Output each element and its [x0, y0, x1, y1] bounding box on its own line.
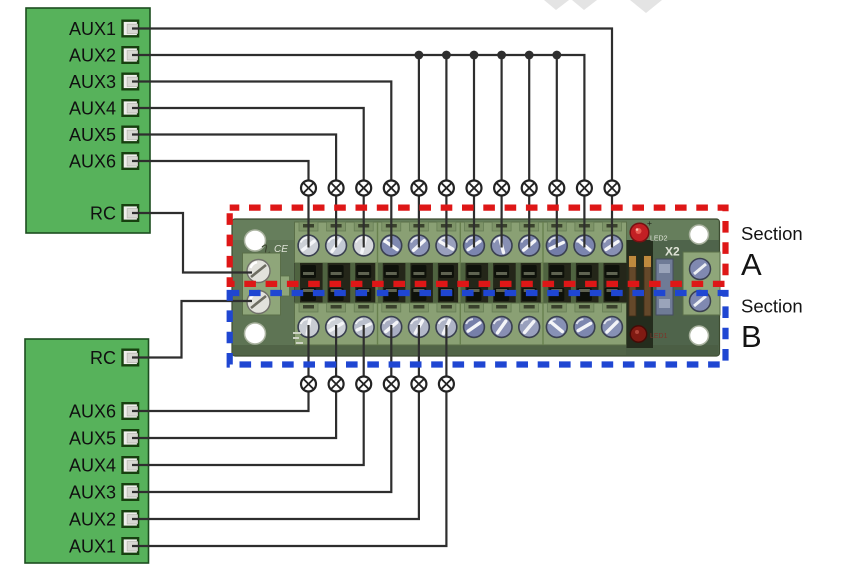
svg-text:AUX2: AUX2	[69, 45, 116, 65]
terminal AUX3 (top box)	[69, 72, 138, 92]
svg-text:+: +	[647, 218, 652, 228]
svg-text:AUX3: AUX3	[69, 482, 116, 502]
junction AUX2 bus 6	[442, 51, 451, 60]
silkscreen marks	[293, 332, 303, 344]
wire RC bottom to left block lower screw	[132, 301, 252, 358]
junction AUX2 bus 5	[415, 51, 424, 60]
wire AUX2 bus drop 6	[445, 55, 447, 248]
svg-text:X2: X2	[665, 245, 680, 259]
svg-text:AUX1: AUX1	[69, 536, 116, 556]
connection point bottom 5	[411, 377, 426, 392]
wire entry band	[295, 263, 627, 303]
wire AUX1 bottom to terminal 6	[132, 325, 446, 546]
connection point top 1	[301, 181, 316, 196]
mounting hole top-left	[245, 230, 266, 251]
wire AUX5 bottom to terminal 2	[132, 325, 336, 438]
svg-text:AUX5: AUX5	[69, 125, 116, 145]
watermark	[544, 0, 662, 13]
wire AUX2 bus drop 9	[528, 55, 530, 248]
RC terminal block left	[243, 253, 290, 315]
connector box top (AUX outputs)	[26, 8, 150, 233]
svg-text:Section: Section	[741, 296, 803, 317]
terminal AUX2 (top box)	[69, 45, 138, 65]
connection point bottom 4	[384, 377, 399, 392]
wire AUX3 bottom to terminal 4	[132, 325, 391, 492]
svg-text:LED2: LED2	[650, 236, 668, 243]
terminal RC (bottom box)	[90, 348, 138, 368]
wire AUX2 bus drop 7	[473, 55, 475, 248]
CE marking	[262, 244, 288, 255]
wire AUX6 bottom to terminal 1	[132, 325, 309, 411]
X2 terminal block right	[683, 252, 720, 315]
wire AUX5 top to terminal 2	[132, 135, 336, 248]
svg-text:AUX1: AUX1	[69, 19, 116, 39]
mounting hole bottom-right	[690, 326, 709, 345]
connection point top 12	[605, 181, 620, 196]
svg-text:A: A	[741, 247, 762, 282]
svg-text:AUX6: AUX6	[69, 151, 116, 171]
connection point bottom 6	[439, 377, 454, 392]
svg-text:B: B	[741, 319, 762, 354]
terminal RC (top box)	[90, 203, 138, 223]
screw terminals section B (12)	[298, 317, 622, 338]
terminal AUX2 (bottom box)	[69, 509, 138, 529]
screw terminals section A (12)	[298, 235, 622, 256]
terminal AUX6 (top box)	[69, 151, 138, 171]
LED2	[630, 218, 667, 243]
connection point top 3	[356, 181, 371, 196]
terminal AUX4 (top box)	[69, 98, 138, 118]
connection point top 4	[384, 181, 399, 196]
terminal AUX5 (bottom box)	[69, 428, 138, 448]
wire AUX4 top to terminal 3	[132, 108, 364, 248]
terminal AUX1 (bottom box)	[69, 536, 138, 556]
label Section A	[741, 223, 803, 282]
svg-text:AUX4: AUX4	[69, 98, 116, 118]
screw terminal strip, section A row	[295, 222, 627, 263]
terminal block PCB	[232, 218, 720, 356]
screw terminal strip, section B row	[295, 303, 627, 345]
wire AUX2 bus drop 8	[501, 55, 503, 248]
connection point top 11	[577, 181, 592, 196]
section A outline (red dashed)	[230, 208, 726, 284]
connector box bottom (AUX outputs)	[25, 339, 149, 563]
svg-text:AUX3: AUX3	[69, 72, 116, 92]
terminal AUX5 (top box)	[69, 125, 138, 145]
svg-text:RC: RC	[90, 203, 116, 223]
wire AUX2 bottom to terminal 5	[132, 325, 419, 519]
svg-text:Section: Section	[741, 223, 803, 244]
wire AUX3 top to terminal 4	[132, 82, 391, 248]
wire AUX4 bottom to terminal 3	[132, 325, 364, 465]
connection point top 10	[549, 181, 564, 196]
terminal AUX6 (bottom box)	[69, 401, 138, 421]
wire AUX2 top bus to terminals 5-11	[132, 55, 584, 248]
junction AUX2 bus 7	[470, 51, 479, 60]
wire RC top to left block upper screw	[132, 213, 252, 273]
svg-text:AUX4: AUX4	[69, 455, 116, 475]
junction AUX2 bus 8	[497, 51, 506, 60]
mounting hole top-right	[690, 225, 709, 244]
connection point bottom 2	[329, 377, 344, 392]
LED1	[630, 326, 667, 342]
wire AUX6 top to terminal 1	[132, 161, 309, 248]
connection point bottom 1	[301, 377, 316, 392]
terminal AUX3 (bottom box)	[69, 482, 138, 502]
section B outline (blue dashed)	[230, 293, 726, 365]
terminal AUX4 (bottom box)	[69, 455, 138, 475]
connection point top 5	[411, 181, 426, 196]
connection point top 8	[494, 181, 509, 196]
terminal AUX1 (top box)	[69, 19, 138, 39]
connection point bottom 3	[356, 377, 371, 392]
connection point top 6	[439, 181, 454, 196]
connection point top 7	[467, 181, 482, 196]
label Section B	[741, 296, 803, 355]
svg-text:RC: RC	[90, 348, 116, 368]
wire AUX2 bus drop 10	[556, 55, 558, 248]
svg-text:AUX6: AUX6	[69, 401, 116, 421]
connection point top 9	[522, 181, 537, 196]
wire AUX2 bus drop 5	[418, 55, 420, 248]
wire AUX1 top to terminal 12	[132, 29, 612, 248]
svg-text:AUX2: AUX2	[69, 509, 116, 529]
svg-text:LED1: LED1	[650, 333, 668, 340]
svg-text:AUX5: AUX5	[69, 428, 116, 448]
junction AUX2 bus 10	[552, 51, 561, 60]
junction AUX2 bus 9	[525, 51, 534, 60]
connection point top 2	[329, 181, 344, 196]
mounting hole bottom-left	[245, 323, 266, 344]
diodes / components	[627, 240, 674, 348]
